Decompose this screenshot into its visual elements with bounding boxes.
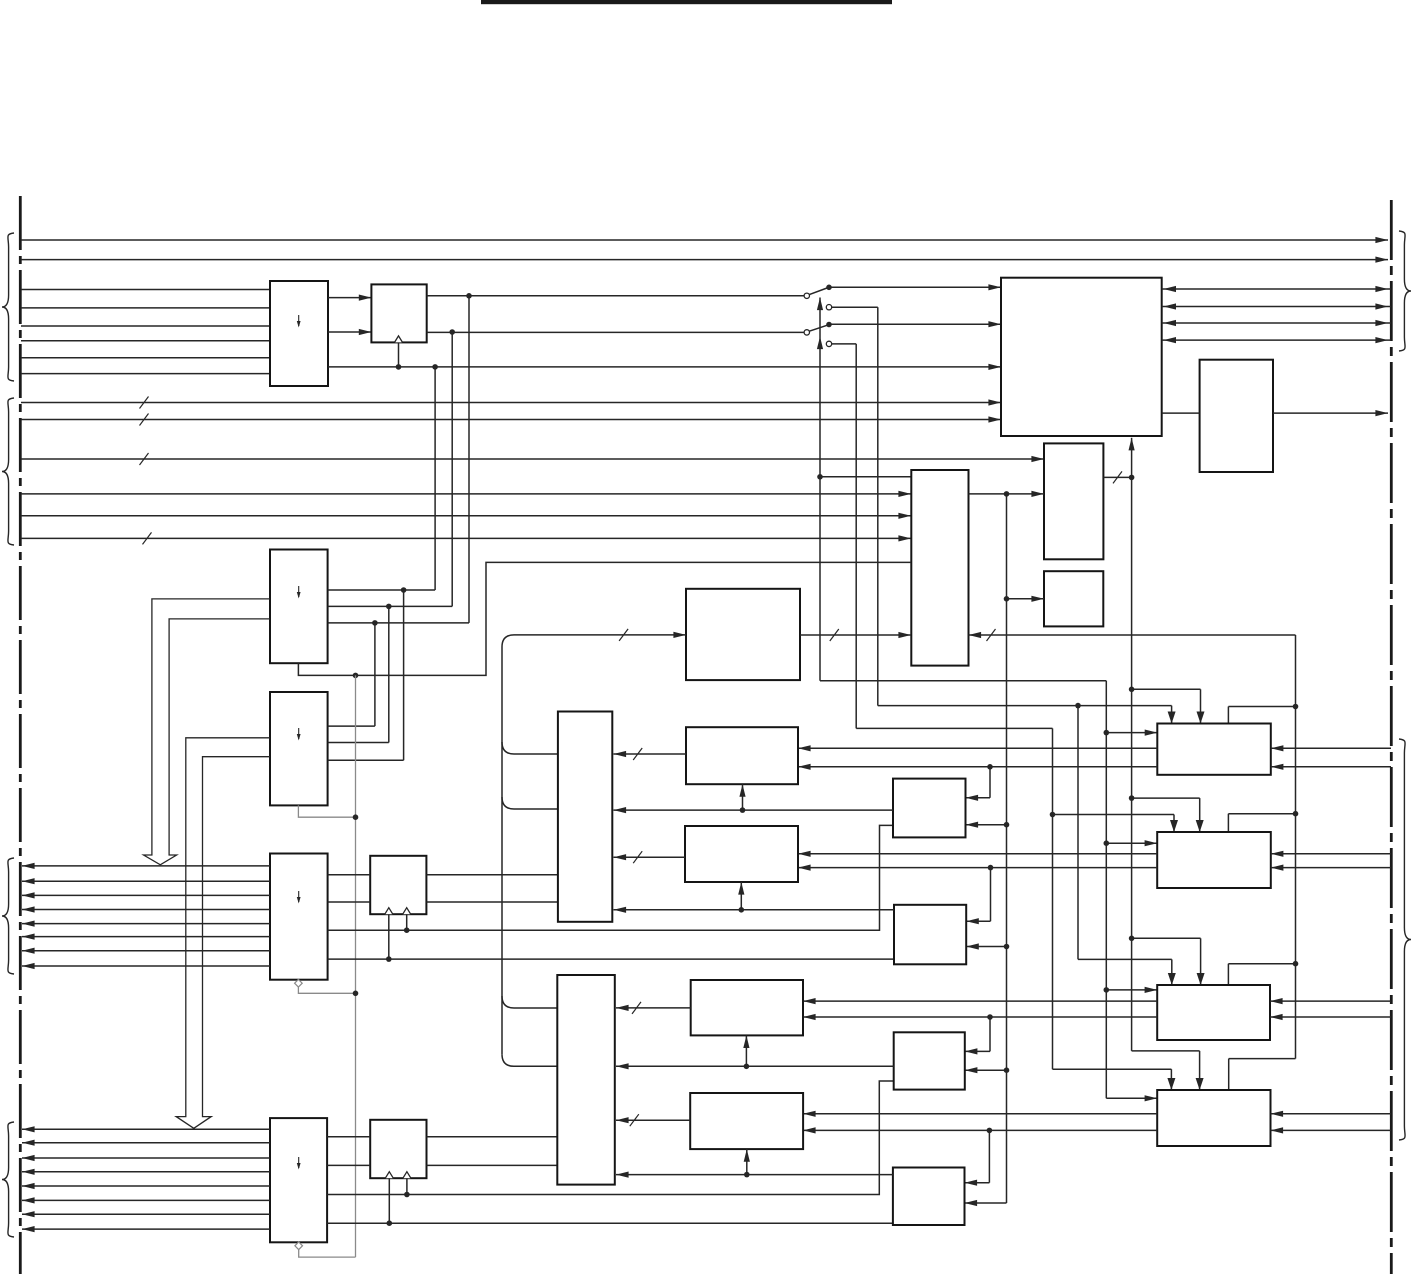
node A-column y=766.8 [987,764,993,770]
wire bus to U5 y=402.5 [21,402,1001,404]
node A-column y=1130.4 [987,1128,993,1134]
switch S1 lever [809,288,827,295]
node E-column y=938.3 [1129,936,1135,942]
wire U11-U12 y=874.7 [328,874,371,876]
wire U15 out to U13 arrow y=754 [614,753,687,755]
wire U11 to bus y=895.4 [22,894,270,896]
wire U25 out y=1194.5 riser to U18 left [327,1081,894,1195]
wire U15c out to U13 arrow y=857.2 [614,856,686,858]
wire riser x=452.2 [451,332,453,606]
wire S1NC net corner to U14 feed y=705.6 [878,705,1172,707]
block U15b interpolator A [893,779,966,838]
wire S1 NC to riser x=877.8 [832,306,878,308]
wire U25 to bus y=1214.2 [22,1213,270,1215]
wire x=1078 drop [1077,706,1079,960]
left bus line (dash-dot) [19,196,22,1274]
wire E-column up into U5 bottom [1131,438,1133,478]
wire bus to U1 y=340.8 [21,340,270,342]
wire U26 wedge1 stub [388,1178,390,1223]
wire U9 right input from column x=1295.5 [969,634,1296,636]
wire to U16 left arrow [1106,842,1157,844]
block U12 hold register A [370,856,426,914]
wire A-column to U15b right arrow [989,767,991,798]
node B-column y=1070.2 [1004,1067,1010,1073]
wire U4 out3 y=760.2 [328,759,404,761]
wire U11 to bus y=936.6 [22,936,270,938]
wire A-column to U17 right arrow [990,868,992,922]
wire border to box right arrow y=748.3 [1271,747,1391,749]
wire B-column vertical x=1006.5 [1006,494,1008,1203]
node daisy x=355.5 y=817.2 [353,814,359,820]
node U3 out2 x=388.8 [386,604,392,610]
wire to U16 top arrow left [1053,814,1175,816]
node x=1295.5 y=706.5 [1293,704,1299,710]
wire B-column to U18 arrow2 [965,1069,1007,1071]
node wedge1 y=1223.2 [387,1220,393,1226]
wire U2 out2 to switch S2 [427,331,805,333]
block U5 controller [1001,278,1162,436]
wire U25 out y=1223.2 to U24 left [327,1222,893,1224]
wire A-column to U24 right arrow [988,1130,990,1182]
wire S1 common to U5 [829,286,1001,288]
wire B-column to U8 arrow [1007,598,1045,600]
select line arrow lower [817,337,823,350]
wire riser x=403.6 [403,590,405,760]
block U22 processor D [690,1093,803,1149]
wire bus to U9 y=515.8 [21,515,911,517]
wire border to box right arrow y=1130.4 [1271,1129,1392,1131]
node E-column y=689.3 [1129,687,1135,693]
wire U25 to bus y=1229.1 [22,1228,270,1230]
wire bus to U1 y=326.0 [21,325,270,327]
wire U11 to bus y=950.7 [22,950,270,952]
wire up into U22 bottom [746,1149,748,1175]
wire U1 clock out to U5 y=366.9 [328,366,1001,368]
wire E-column end to U23 top arrow right [1132,1050,1200,1052]
node E-column y=798.1 [1129,795,1135,801]
switch S2 pole contact [804,330,809,335]
node B-column to U8 [1004,596,1010,602]
wire riser x=856.2 down [855,344,857,729]
node B-column top x=1006.5 [1004,491,1010,497]
wire up into U15 bottom [742,784,744,810]
wire U11 to bus y=865.9 [22,865,270,867]
wire E-column down x=1131.6 [1131,477,1133,1051]
wire to U23 top arrow left y=1069.2 [1053,1068,1172,1070]
wire U25 to bus y=1200.4 [22,1199,270,1201]
wire U10 out to U9 left [800,634,911,636]
U4 internal down arrow [297,728,301,741]
wire U3 bottom to U9 route [298,562,911,675]
wire B-column end to U24 arrow2 [965,1202,1007,1204]
wire riser x=877.8 down [877,307,879,705]
node B-column y=824.7 [1004,822,1010,828]
U25 bottom diamond [295,1242,303,1250]
node select x=1106.3 y=732.6 [1104,730,1110,736]
wire S2NC vertical x=1052.5 [1052,728,1054,1069]
daisy vertical x=355.5 [355,675,357,1257]
switch S1 NC contact [826,305,831,310]
block U18 interpolator C [894,1032,965,1089]
wire column x=1295.5 vertical [1295,635,1297,1059]
wire S2 NC to riser x=856.2 [832,343,857,345]
block U15c processor B [685,826,798,882]
node on clock net at x=398.5 [396,364,402,370]
block U20 processor C [691,980,803,1035]
block U21 line memory C [1157,985,1270,1040]
wire up into U20 bottom [745,1035,747,1066]
wire U25 bottom stub [299,1250,356,1258]
wire U21 left to U20 arrow y=1017.0 [803,1016,1157,1018]
block U16 line memory B [1157,832,1271,888]
wire U7 out to column x=1131.6 [1103,476,1131,478]
U11 internal down arrow [297,891,301,904]
U12 clock wedge 1 [385,908,393,915]
wire U3 out1 y=590 [328,589,436,591]
node y=1174.6 x=746.8 [744,1172,750,1178]
wire bus to U1 y=357.8 [21,357,270,359]
wire U25 to bus y=1171.8 [22,1171,270,1173]
wire bus to U9 y=493.9 [21,493,911,495]
wire U11 to bus y=923.6 [22,923,270,925]
node on clock net at x=435.1 [432,364,438,370]
wire U14 left to U15 arrow y=766.8 [798,766,1157,768]
node select x=1106.3 y=989.9 [1104,987,1110,993]
wire U16 left to U15c arrow y=867.6 [798,867,1157,869]
wire U14 left to U15 arrow y=748.3 [798,747,1157,749]
wire S2 common to U5 [829,323,1001,325]
wire to U21 top arrow left [1078,958,1172,960]
wire U4 out2 y=742.5 [328,742,389,744]
wire bus502 to U10 left arrow [514,634,686,636]
block U10 data mux [686,589,800,680]
wire U12 wedge2 stub [406,914,408,930]
wire bus to U1 y=289.5 [21,289,270,291]
wire bus to U1 y=307.9 [21,307,270,309]
wire U11 bottom stub [298,987,355,993]
wire U5 to U6 [1162,412,1200,414]
wire U11-U12 y=902 [328,901,371,903]
node select line x=820 [817,474,823,480]
wire bus to right border y=259.6 [21,259,1388,261]
node x=1295.5 y=963.7 [1293,961,1299,967]
switch S1 pole contact [804,293,809,298]
wire U19 arrow y=1066.3 to U18 left [616,1065,894,1067]
left brace group 2 [2,398,14,545]
block U13 FIFO A [558,712,612,922]
wire riser x=469 [468,296,470,623]
wire to U14 left arrow [1106,732,1157,734]
wire U12 to U13 y=902 [426,901,558,903]
wire U12 wedge1 stub [388,914,390,959]
node y=810.1 x=742.5 [740,807,746,813]
wire A-column to U18 right arrow [989,1017,991,1051]
node wedge2 y=1194.5 [404,1192,410,1198]
wire U13 arrow y=810.1 to U15b left [614,809,894,811]
wire B-column to U17 arrow2 [966,946,1006,948]
wire U6 to right border [1273,412,1388,414]
wire U11 to bus y=881.2 [22,880,270,882]
wire B-column to U15b arrow2 [966,824,1007,826]
wire to U21 left arrow [1106,989,1157,991]
wire U21 left to U20 arrow y=1001.1 [803,1000,1157,1002]
U3 internal down arrow [297,586,301,599]
node S1NC net x=1078 [1075,703,1081,709]
wire U25 to bus y=1158.0 [22,1157,270,1159]
node E-column x=1131.6 [1129,475,1135,481]
wire select node to U9 left [820,476,911,478]
wire bus to right border y=240 [21,239,1388,241]
block U26 hold register B [370,1120,426,1178]
switch S2 lever [809,325,827,331]
U26 clock wedge 2 [403,1172,411,1179]
block U1 input latch [270,281,328,386]
wire U3 out2 y=606.4 [328,605,453,607]
wire riser x=435.1 [434,367,436,590]
title underline [481,0,892,4]
wire U11 to bus y=966.0 [22,965,270,967]
wire border to box right arrow y=1017.0 [1270,1016,1391,1018]
wire U5 right border bidir y=323 [1162,322,1391,324]
wire to U21 top arrow right [1132,937,1201,939]
wire U1 to U2 lower [328,331,371,333]
node U2 out2 x=452.2 [449,329,455,335]
wire riser x=374.9 [374,623,376,726]
block U7 timing gen [1044,443,1103,559]
wire border to box right arrow y=766.8 [1271,766,1391,768]
wire U19 arrow y=1174.6 to U24 left [616,1174,893,1176]
wire U20 out to U19 arrow y=1007.9 [616,1007,691,1009]
bus502 branch to U19 y=1066.3 [502,1054,557,1066]
node daisy x=355.5 y=993.3 [353,991,359,997]
wire select net down x=1106.3 [1105,681,1107,1099]
wire U2 clock stub [398,342,400,367]
wire U25 to bus y=1186.0 [22,1185,270,1187]
wire U1 to U2 upper [328,297,371,299]
node x=1295.5 y=813.7 [1293,811,1299,817]
right bus line (dash-dot) [1390,200,1393,1274]
wire U4 bottom stub [298,805,355,817]
block U9 sync separator [911,470,968,666]
left brace group 3 [2,858,14,974]
right brace group 1 [1399,231,1411,351]
wire branch to U16 top plain [1228,813,1295,815]
block U23 line memory D [1157,1090,1270,1146]
wire U26 wedge2 stub [406,1178,408,1194]
block U25 output latch B [270,1118,327,1242]
wire U11 to bus y=909.5 [22,909,270,911]
U11 bottom diamond [295,979,303,987]
node S2NC x=1052.5 y=814.5 [1050,812,1056,818]
wire bus to U5 y=419.5 [21,419,1001,421]
wire U12 to U13 y=874.7 [426,874,558,876]
wire riser x=388.8 [388,606,390,742]
wire bus502 corner [502,635,514,1054]
wire border to box right arrow y=1113.8 [1271,1113,1392,1115]
node A-column y=867.6 [988,865,994,871]
node y=1066.3 x=746.4 [744,1064,750,1070]
block U6 output buffer [1200,360,1273,472]
wire bus to U9 y=538.4 [21,537,911,539]
wire U11 out y=930.2 riser to U15b left [328,825,893,930]
wire U16 left to U15c arrow y=853.8 [798,853,1157,855]
node U3 out3 x=374.9 [372,620,378,626]
U12 clock wedge 2 [403,908,411,915]
wire U2 out1 to switch S1 [427,295,805,297]
wire to U16 top arrow right [1132,797,1200,799]
block U14 line memory A [1157,724,1271,775]
wire branch to U21 top plain [1228,963,1295,965]
node wedge2 y=930.2 [404,927,410,933]
node U2 out1 x=469 [466,293,472,299]
left brace group 4 [2,1122,14,1237]
U1 internal down arrow [297,315,301,328]
wire border to box right arrow y=867.6 [1271,867,1391,869]
bus502 branch to U13 y=754 [502,742,558,754]
wire U26 to U19 y=1165.4 [427,1164,558,1166]
right brace group 2 [1399,739,1411,1140]
wire U5 right border bidir y=289 [1162,288,1391,290]
block U19 FIFO B [557,975,615,1185]
U2 clock wedge [395,336,403,343]
switch S2 common node [826,322,832,328]
wire U26 to U19 y=1136.8 [427,1136,558,1138]
wire select net across y=680.8 [820,680,1106,682]
block U3 address latch [270,550,328,664]
node daisy top x=355.5 [353,673,359,679]
wire branch to U14 top plain [1228,706,1295,708]
wire U25-U26 y=1136.8 [327,1136,370,1138]
wire U23 left to U22 arrow y=1113.8 [803,1113,1157,1115]
bus502 branch to U13 y=809 [502,797,558,809]
wire U25-U26 y=1165.4 [327,1164,370,1166]
hollow bus arrow 1 [144,599,270,865]
wire U5 right border bidir y=306.5 [1162,306,1391,308]
left brace group 1 [2,233,14,381]
block U2 register [371,284,426,342]
switch S2 NC contact [826,341,831,346]
wire border to box right arrow y=1001.1 [1270,1000,1391,1002]
wire bus to U7 y=459 [21,458,1044,460]
block U15 processor A [686,727,798,784]
wire U13 arrow y=909.8 to U17 left [614,909,895,911]
wire U9 out to U7 in y=493.9 [969,493,1045,495]
block U8 divider [1044,571,1103,626]
wire bus to U1 y=373.6 [21,373,270,375]
wire U25 to bus y=1142.7 [22,1142,270,1144]
wire U5 right border bidir y=340.1 [1162,339,1391,341]
bus502 branch to U19 y=1008 [502,996,557,1008]
node wedge1 y=959.1 [386,956,392,962]
wire U11 out y=959.1 to U17 left [328,958,894,960]
wire border to box right arrow y=853.8 [1271,853,1391,855]
node A-column y=1017.0 [987,1014,993,1020]
wire U22 out to U19 arrow y=1120.2 [616,1119,690,1121]
wire U25 to bus y=1129.3 [22,1128,270,1130]
node B-column y=946.5 [1004,944,1010,950]
wire U23 left to U22 arrow y=1130.4 [803,1129,1157,1131]
select line arrow upper [819,298,821,477]
node U3 out1 x=403.6 [401,587,407,593]
switch S1 common node [826,285,832,291]
block U4 address latch 2 [270,692,328,805]
U25 internal down arrow [297,1157,301,1170]
block U17 interpolator B [894,905,966,965]
hollow bus arrow 2 [176,738,270,1129]
wire to U14 top arrow right [1132,688,1201,690]
block U11 output latch A [270,854,328,980]
wire U4 out1 y=726.1 [328,725,375,727]
wire select net down x=820 [819,477,821,681]
block U24 interpolator D [893,1168,965,1226]
wire U14 top arrow left [1171,706,1173,724]
wire S2NC net corner y=728.4 [856,727,1052,729]
wire branch to U23 top plain [1229,1058,1296,1060]
node select x=1106.3 y=843.2 [1104,840,1110,846]
U26 clock wedge 1 [385,1172,393,1179]
wire up into U15c bottom [740,882,742,910]
wire U3 out3 y=622.9 [328,622,469,624]
wire select end to U23 left arrow [1106,1097,1157,1099]
node y=909.8 x=741.3 [739,907,745,913]
